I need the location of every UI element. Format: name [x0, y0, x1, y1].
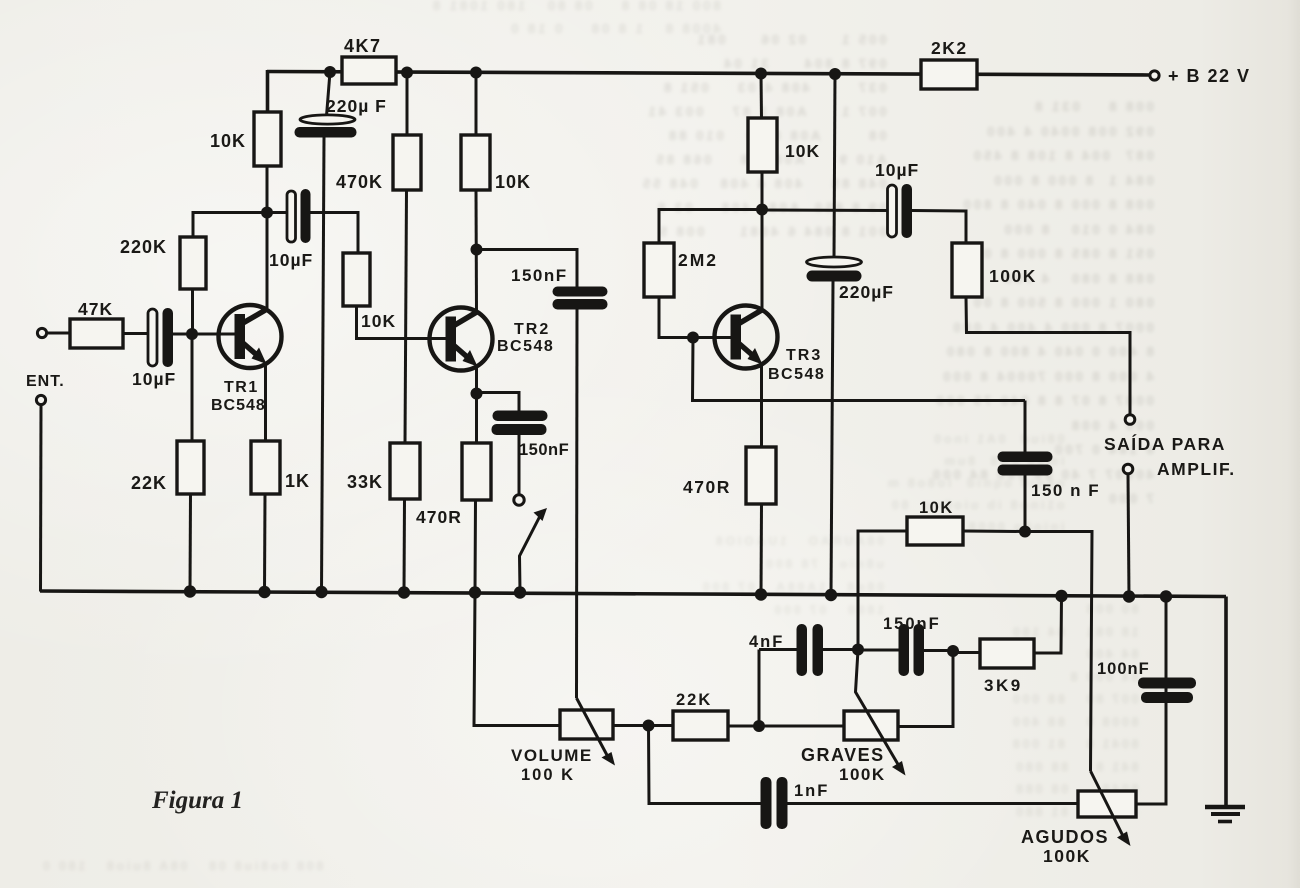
resistor 470K [336, 135, 421, 192]
wire: 1nF branch down and right [649, 726, 763, 804]
wire: TR2 emitter node to 470R [475, 393, 478, 444]
resistor 10K (TR1 collector) [210, 112, 281, 166]
capacitor 150nF (feedback) [998, 452, 1101, 501]
svg-text:GRAVES: GRAVES [801, 745, 885, 765]
transistor TR3 BC548 [715, 306, 826, 384]
wire: 470R bottom to ground bus [760, 504, 764, 595]
svg-text:Figura 1: Figura 1 [151, 787, 243, 814]
node: TR3 collector output [756, 204, 768, 216]
svg-text:BC548: BC548 [211, 397, 266, 414]
wire: bus right end down to ground [1224, 597, 1228, 806]
capacitor 150nF (volume feed) [511, 266, 608, 310]
node: bus 3K9 [1055, 590, 1067, 602]
node: bus 220uF-1 [315, 586, 327, 598]
wire: 1nF to agudos left [788, 802, 1079, 805]
node: TR1 base [186, 328, 198, 340]
wire: graves left to 22K right node [759, 725, 844, 728]
svg-text:2M2: 2M2 [678, 250, 718, 270]
resistor 470R (TR3 emitter) [683, 447, 776, 504]
svg-text:10K: 10K [210, 131, 246, 151]
svg-text:150 n F: 150 n F [1031, 481, 1100, 500]
capacitor 150nF (emitter bypass) [492, 411, 570, 460]
svg-text:AMPLIF.: AMPLIF. [1157, 459, 1236, 479]
svg-text:AGUDOS: AGUDOS [1021, 827, 1109, 847]
svg-text:150nF: 150nF [511, 266, 568, 285]
wire: TR1 base node down to 22K [191, 334, 194, 442]
wire: cap to TR2 base resistor [310, 213, 358, 255]
node: rail / 220uF-2 [829, 68, 841, 80]
node: rail / 10K TR3 collector [755, 68, 767, 80]
svg-text:BC548: BC548 [768, 366, 825, 383]
transistor TR1 BC548 [211, 305, 282, 414]
svg-text:TR3: TR3 [786, 347, 822, 364]
ground symbol [1205, 807, 1245, 822]
resistor 33K [347, 443, 420, 499]
wire: 22K bottom to ground bus [189, 494, 193, 592]
potentiometer AGUDOS 100K [1021, 771, 1136, 866]
capacitor 10uF (interstage, vertical plates) [269, 189, 313, 270]
node: TR2 collector output [471, 244, 483, 256]
wire: 220K bottom to TR1 base node [191, 289, 194, 336]
svg-text:TR1: TR1 [224, 379, 259, 396]
svg-text:SAÍDA PARA: SAÍDA PARA [1104, 433, 1226, 454]
wire: TR3 collector node to 10uF-3 [762, 209, 889, 213]
svg-text:1nF: 1nF [794, 782, 829, 800]
svg-text:4K7: 4K7 [344, 36, 382, 56]
svg-text:10K: 10K [919, 499, 954, 517]
svg-text:470K: 470K [336, 172, 383, 192]
wire: caps row left (from 22K junction riser) [759, 648, 798, 651]
svg-text:+ B 22 V: + B 22 V [1168, 66, 1251, 86]
svg-text:VOLUME: VOLUME [511, 746, 593, 765]
node: graves wiper / caps row [852, 644, 864, 656]
resistor 3K9 [980, 639, 1034, 695]
node: 150nF-D / 3K9 / graves right [947, 645, 959, 657]
node: bus 1K [258, 586, 270, 598]
wire: TR2 collector node to 150nF-A [477, 250, 578, 289]
wire: 220uF-1 bottom lead to ground bus [322, 138, 325, 593]
resistor 22K (tone) [673, 691, 728, 740]
node: 4K7 right / 470K top [401, 67, 413, 79]
wire: cap to TR1 base [173, 333, 235, 336]
wire: TR1 emitter down to 1K [264, 363, 267, 442]
wire: input to 47K [46, 332, 71, 335]
node: bus 470R-1 / volume left [469, 586, 481, 598]
potentiometer GRAVES 100K [801, 650, 906, 784]
wire: TR2 emitter down [475, 365, 478, 394]
svg-text:47K: 47K [78, 299, 113, 319]
faint print bleed-through from reverse page [640, 28, 887, 244]
resistor 2M2 [644, 243, 718, 297]
svg-text:TR2: TR2 [514, 321, 550, 338]
svg-text:3K9: 3K9 [984, 676, 1023, 695]
svg-text:100 K: 100 K [521, 766, 575, 784]
resistor 220K [120, 237, 206, 289]
potentiometer VOLUME 100K [511, 698, 615, 784]
svg-text:2K2: 2K2 [931, 38, 968, 58]
capacitor 100nF [1097, 660, 1196, 703]
node: TR2 emitter [471, 388, 483, 400]
svg-text:220µF: 220µF [839, 282, 894, 302]
svg-text:220K: 220K [120, 237, 167, 257]
terminal: input signal [37, 328, 46, 337]
svg-text:220µ F: 220µ F [326, 96, 387, 116]
capacitor 10uF (input) [132, 308, 176, 389]
wire: output return to ground bus [1128, 474, 1129, 597]
wire: TR3 collector line [761, 172, 764, 309]
resistor 470R (TR2 emitter) [416, 443, 491, 527]
capacitor 150nF (graves) [883, 615, 941, 676]
wire: rail to 10K (TR2 collector) [475, 73, 478, 137]
resistor 47K [70, 299, 123, 348]
node: 22K right / 4nF riser [753, 720, 765, 732]
wire: 150nF-C to 10K node [1024, 476, 1027, 532]
switch wiper arrow to ground bus [520, 508, 548, 591]
svg-text:10K: 10K [361, 311, 396, 331]
wire: 150nF-D to 3K9 node [924, 649, 953, 652]
node: bus 33K [398, 586, 410, 598]
ground bus [40, 591, 1226, 597]
wire: 22K right lead [728, 725, 759, 728]
wire: agudos right to 100nF line [1136, 597, 1166, 805]
capacitor 220uF (stage1 decoupling) [295, 96, 387, 138]
wire: 220uF-2 top lead [834, 74, 835, 258]
svg-text:10K: 10K [785, 141, 820, 161]
svg-text:100K: 100K [989, 266, 1037, 286]
wire: collector node left to 2M2 [659, 208, 762, 211]
wire: 220K top lead [192, 211, 195, 238]
svg-text:10µF: 10µF [269, 250, 313, 270]
wire: riser 4nF row [758, 650, 761, 727]
svg-text:150nF: 150nF [883, 615, 941, 633]
node: TR3 base [687, 332, 699, 344]
svg-text:100K: 100K [1043, 846, 1091, 866]
svg-text:BC548: BC548 [497, 338, 554, 355]
resistor 10K (TR3 collector) [748, 118, 820, 172]
wire: 2M2 top lead [658, 208, 661, 244]
transistor TR2 BC548 [430, 308, 555, 371]
svg-text:100K: 100K [839, 765, 886, 784]
svg-text:22K: 22K [131, 473, 167, 493]
node: rail / 220uF-1 / 4K7 left [324, 66, 336, 78]
wire: 10K-5 left to graves wiper line [858, 531, 907, 650]
resistor 2K2 [921, 38, 977, 89]
wire: 3K9 right up to bus [1034, 596, 1062, 653]
svg-text:470R: 470R [416, 507, 462, 527]
wire: node to 10K-5 [963, 530, 1025, 534]
node: bus 220uF-2 [825, 589, 837, 601]
resistor 100K (output load) [952, 243, 1037, 297]
node: bus 100nF [1160, 590, 1172, 602]
wire: 470K bottom through base line to 33K [405, 190, 407, 444]
svg-text:10µF: 10µF [875, 160, 919, 180]
resistor 22K [131, 441, 204, 494]
wire: rail corner down to R 10K stage1 [266, 70, 270, 113]
wire: +B supply rail [267, 72, 1150, 76]
wire: node to 3K9 [953, 651, 981, 654]
terminal: bypass switch contact [514, 495, 524, 505]
node: bus switch wiper [514, 586, 526, 598]
terminal +B [1150, 71, 1159, 80]
wire: TR3 base node down and right (feedback line) [693, 338, 1026, 401]
wire: input ground down to bus [39, 405, 43, 592]
wire: feedback line down to 150nF-C [1024, 401, 1027, 454]
svg-text:ENT.: ENT. [26, 373, 65, 390]
svg-text:10µF: 10µF [132, 369, 176, 389]
wire: volume right to 22K left [613, 724, 673, 727]
node: rail / 10K TR2 collector [470, 67, 482, 79]
svg-text:1K: 1K [285, 471, 310, 491]
wire: 470R bottom to bus and volume pot left [474, 500, 561, 726]
label SAIDA PARA AMPLIF [1104, 433, 1236, 479]
svg-text:10K: 10K [495, 172, 531, 192]
wire: 1K bottom to ground bus [263, 494, 267, 592]
wire: TR3 emitter to 470R [760, 363, 763, 448]
wire: emitter node to 150nF-B [477, 393, 520, 413]
terminal: input ground [36, 395, 45, 404]
terminal: output return [1123, 464, 1133, 474]
wire: TR2 collector line [475, 190, 479, 311]
wire: graves right side riser [899, 651, 953, 727]
terminal: output [1125, 415, 1135, 425]
wire: rail to 10K (TR3) [760, 74, 764, 120]
svg-text:100nF: 100nF [1097, 660, 1150, 678]
resistor 1K [251, 441, 310, 494]
node: volume/22K/1nF junction [643, 720, 655, 732]
wire: 4nF to node [823, 648, 858, 651]
svg-text:22K: 22K [676, 691, 712, 709]
wire: 220uF-2 bottom lead to ground bus [831, 282, 833, 596]
node: bus output return [1123, 590, 1135, 602]
resistor 10K (TR2 collector) [461, 135, 531, 192]
wire: 10uF-3 to 100K [912, 211, 966, 245]
resistor 4K7 [342, 36, 396, 84]
wire: 2M2 bottom to TR3 base [659, 297, 732, 338]
node: bus 470R-2 [755, 588, 767, 600]
wire: 33K bottom to ground bus [403, 499, 407, 593]
capacitor 4nF [749, 624, 823, 676]
wire: agudos branch [1025, 532, 1092, 772]
svg-text:33K: 33K [347, 472, 383, 492]
resistor 10K (TR2 base feed) [343, 253, 396, 331]
wire: collector line TR1 [266, 166, 269, 308]
node: 150nF-C / 10K / agudos wiper [1019, 526, 1031, 538]
node: bus 22K [184, 585, 196, 597]
wire: 100K bottom to output terminal [966, 297, 1130, 414]
svg-text:150nF: 150nF [519, 441, 569, 459]
wire: 150nF-B to open terminal [518, 435, 521, 494]
capacitor 10uF (output coupling) [875, 160, 919, 238]
capacitor 220uF (stage3 decoupling) [807, 257, 894, 302]
wire: 150nF-A down to volume wiper [575, 310, 579, 699]
node: TR1 collector junction [261, 207, 273, 219]
wire: 47K to input cap [123, 332, 149, 335]
resistor 10K (feedback) [907, 499, 963, 545]
wire: node to 150nF-D [858, 649, 899, 652]
wire: 220uF-1 top lead [327, 72, 331, 116]
svg-text:4nF: 4nF [749, 633, 784, 651]
svg-text:470R: 470R [683, 477, 731, 497]
capacitor 1nF [761, 777, 830, 829]
wire: 10K to TR2 base [357, 306, 448, 339]
wire: 470K top lead [406, 73, 409, 137]
wire: collector node to 220K and coupling cap [193, 211, 287, 214]
